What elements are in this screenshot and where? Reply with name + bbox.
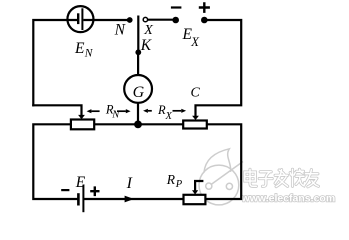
svg-text:E: E <box>74 40 85 57</box>
svg-text:E: E <box>75 174 86 191</box>
svg-text:R: R <box>166 172 176 187</box>
svg-text:P: P <box>175 179 183 190</box>
svg-text:X: X <box>165 111 173 122</box>
svg-text:K: K <box>140 37 152 54</box>
svg-text:N: N <box>114 21 127 38</box>
svg-text:X: X <box>143 23 153 38</box>
svg-text:X: X <box>190 35 200 49</box>
svg-text:www.elecfans.com: www.elecfans.com <box>241 193 336 205</box>
svg-text:G: G <box>133 84 145 101</box>
svg-text:N: N <box>111 110 120 121</box>
svg-text:C: C <box>191 86 201 101</box>
svg-text:N: N <box>84 48 94 60</box>
svg-text:I: I <box>126 175 133 192</box>
